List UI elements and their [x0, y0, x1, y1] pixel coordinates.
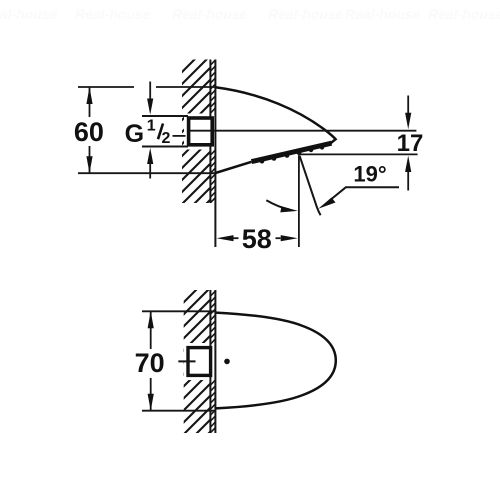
- wall face outer line view1 + 58 left extension: [214, 60, 216, 248]
- svg-text:1: 1: [147, 117, 156, 134]
- white cutout for square view2: [184, 343, 215, 380]
- 60 top extension line: [78, 86, 215, 88]
- dimension 58: [233, 237, 281, 239]
- svg-text:58: 58: [242, 224, 272, 254]
- watermark row: [0, 6, 500, 22]
- cap outline view2: [216, 313, 336, 409]
- svg-text:17: 17: [397, 130, 424, 157]
- svg-text:Real-house: Real-house: [428, 6, 500, 22]
- 60 bottom extension line: [78, 172, 215, 174]
- 58 right extension line: [298, 155, 300, 247]
- wall face outer line view2: [214, 290, 216, 433]
- svg-text:Real-house: Real-house: [345, 6, 421, 22]
- serration bumps: [260, 145, 324, 163]
- G1/2 extension lines: [142, 116, 188, 147]
- 70 bottom extension line: [142, 410, 215, 412]
- 17 bottom extension line: [299, 153, 418, 155]
- svg-text:Real-house: Real-house: [75, 6, 151, 22]
- dimension 17 arrows: [407, 96, 409, 191]
- square fitting view2: [188, 348, 211, 376]
- svg-text:60: 60: [74, 117, 104, 147]
- 19deg slanted reference line: [300, 156, 321, 216]
- spout top curve: [215, 87, 335, 144]
- dimension 60: [89, 87, 91, 173]
- spout bottom edge: [215, 162, 251, 173]
- angle arc with arrow: [266, 200, 289, 209]
- wall strip ticks view2: [211, 291, 216, 432]
- svg-text:70: 70: [135, 348, 165, 378]
- 19deg leader line: [329, 187, 399, 201]
- wall face inner line view2: [209, 290, 211, 433]
- svg-text:19°: 19°: [353, 161, 386, 186]
- white cutout for square (interrupt hatch): [184, 114, 215, 150]
- G1/2 arrows: [149, 82, 151, 179]
- svg-text:Real-house: Real-house: [172, 6, 248, 22]
- dimension 70: [150, 311, 152, 410]
- wall strip ticks view1: [211, 60, 216, 202]
- square fitting view1: [189, 118, 213, 145]
- center line: [173, 131, 417, 136]
- dot view2: [224, 359, 230, 365]
- center tick view2: [178, 360, 195, 362]
- 70 top extension line: [142, 310, 215, 312]
- svg-text:Real-house: Real-house: [268, 6, 344, 22]
- svg-text:Real-house: Real-house: [0, 6, 58, 22]
- spout spray face (serrated): [252, 143, 332, 161]
- svg-text:2: 2: [162, 130, 171, 147]
- wall hatching view1: [170, 38, 216, 252]
- wall hatching view2: [170, 270, 216, 484]
- wall face inner line view1: [209, 60, 211, 204]
- svg-text:G: G: [125, 120, 144, 148]
